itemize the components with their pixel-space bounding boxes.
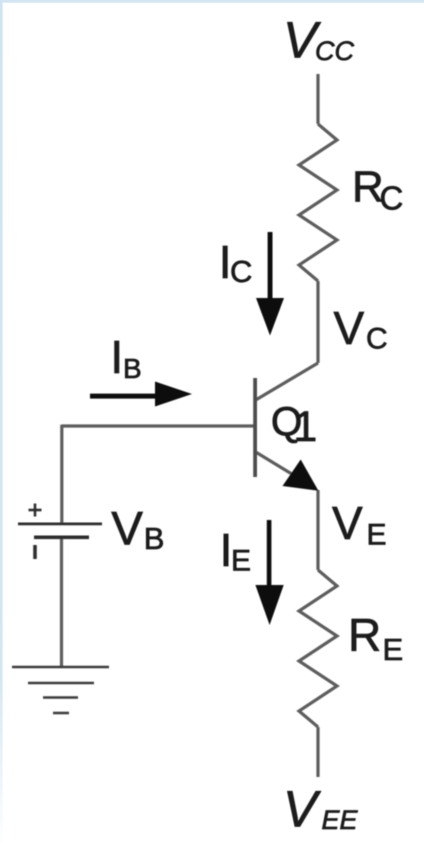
svg-text:R: R (348, 609, 381, 661)
svg-text:C: C (366, 323, 388, 356)
svg-text:C: C (380, 180, 404, 217)
svg-text:EE: EE (322, 805, 359, 835)
svg-text:CC: CC (315, 36, 354, 66)
svg-text:I: I (110, 331, 123, 383)
svg-text:E: E (383, 632, 404, 667)
svg-text:V: V (334, 302, 365, 354)
svg-text:E: E (231, 545, 251, 578)
svg-text:C: C (230, 254, 252, 289)
svg-text:E: E (367, 519, 387, 552)
svg-text:V: V (283, 781, 321, 838)
svg-text:B: B (123, 353, 142, 384)
svg-text:V: V (111, 503, 143, 556)
svg-text:B: B (144, 521, 165, 556)
svg-text:V: V (332, 497, 363, 549)
svg-text:1: 1 (293, 403, 317, 451)
